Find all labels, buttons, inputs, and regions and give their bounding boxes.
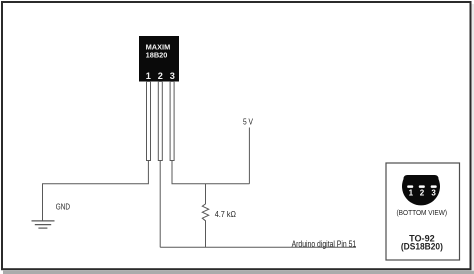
wire pin2 to bottom rail (down) (159, 161, 161, 248)
svg-text:(DS18B20): (DS18B20) (401, 242, 443, 252)
svg-text:4.7 kΩ: 4.7 kΩ (215, 209, 236, 219)
svg-text:3: 3 (170, 71, 175, 81)
resistor R1 4.7 kOhm (pull-up) (202, 184, 208, 248)
svg-text:18B20: 18B20 (146, 51, 168, 60)
U1 pin 1 lead (147, 82, 151, 161)
TO-92 package outline (bottom view) (402, 175, 440, 205)
U1 pin 3 lead (170, 82, 174, 161)
wire pin3 to 5V node (down, right) (172, 161, 249, 184)
wire bottom rail to Arduino pin (160, 246, 356, 248)
TO-92 inset box (386, 163, 460, 260)
svg-text:2: 2 (420, 188, 425, 197)
svg-text:1: 1 (146, 71, 151, 81)
wire 5V supply (vertical) (248, 128, 250, 184)
svg-text:Arduino digital Pin 51: Arduino digital Pin 51 (292, 239, 357, 249)
svg-text:5 V: 5 V (243, 117, 253, 127)
TO-92 pad 1 (407, 185, 413, 188)
svg-text:1: 1 (409, 188, 414, 197)
wire pin1 to ground (down, left, down) (43, 161, 149, 221)
svg-text:2: 2 (158, 71, 163, 81)
TO-92 pad 3 (431, 185, 437, 188)
svg-text:GND: GND (56, 202, 70, 212)
svg-text:3: 3 (431, 188, 436, 197)
svg-text:(BOTTOM VIEW): (BOTTOM VIEW) (397, 208, 448, 217)
IC U1 DS18B20 body (MAXIM 18B20) (139, 36, 179, 82)
TO-92 pad 2 (419, 185, 425, 188)
U1 pin 2 lead (158, 82, 162, 161)
ground symbol (32, 221, 55, 228)
